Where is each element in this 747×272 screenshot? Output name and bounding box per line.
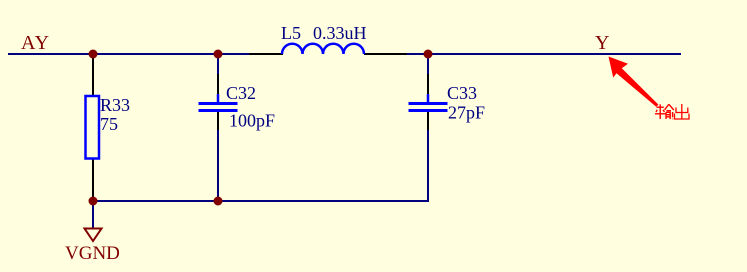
- resistor R33 label: [100, 95, 130, 115]
- ground VGND symbol: [85, 229, 102, 242]
- svg-text:75: 75: [100, 114, 118, 134]
- inductor L5 pin right: [364, 53, 407, 55]
- glyph 输: [657, 106, 664, 108]
- inductor L5 value 0.33uH: [313, 23, 367, 43]
- wire C33 top stub: [427, 54, 429, 75]
- junction node top C33: [424, 50, 433, 59]
- ground VGND label: [65, 243, 120, 264]
- net label AY: [21, 32, 50, 54]
- capacitor C32 label: [226, 83, 256, 103]
- resistor R33: [86, 96, 100, 159]
- capacitor C32: [199, 94, 238, 111]
- capacitor C33 pin bottom: [427, 112, 429, 130]
- capacitor C32 pin top: [217, 74, 219, 95]
- inductor L5: [282, 44, 364, 54]
- svg-text:27pF: 27pF: [448, 103, 485, 123]
- wire C33 bottom to rail: [427, 129, 429, 202]
- net label Y: [595, 32, 609, 54]
- wire C32 top stub: [217, 54, 219, 75]
- svg-text:R33: R33: [100, 95, 130, 115]
- svg-text:C33: C33: [447, 83, 477, 103]
- wire C32 bottom to rail: [217, 129, 219, 202]
- wire bottom rail: [93, 200, 429, 202]
- svg-text:L5: L5: [281, 23, 301, 43]
- wire top-right segment L5 to Y: [406, 53, 681, 55]
- capacitor C32 pin bottom: [217, 112, 219, 130]
- glyph 出: [681, 104, 683, 119]
- svg-text:VGND: VGND: [65, 243, 120, 264]
- capacitor C33: [409, 94, 448, 111]
- svg-text:AY: AY: [21, 32, 50, 54]
- svg-text:100pF: 100pF: [229, 111, 275, 131]
- svg-text:Y: Y: [595, 32, 609, 54]
- capacitor C33 pin top: [427, 74, 429, 95]
- junction node top C32: [214, 50, 223, 59]
- wire VGND stub: [92, 201, 94, 228]
- inductor L5 label: [281, 23, 301, 43]
- resistor R33 value 75: [100, 114, 118, 134]
- svg-text:C32: C32: [226, 83, 256, 103]
- inductor L5 pin left: [249, 53, 283, 55]
- resistor R1 pin top: [92, 54, 94, 96]
- svg-text:0.33uH: 0.33uH: [313, 23, 367, 43]
- capacitor C33 value 27pF: [448, 103, 485, 123]
- junction node bottom-left: [89, 197, 98, 206]
- junction node top-left: [89, 50, 98, 59]
- capacitor C32 value 100pF: [229, 111, 275, 131]
- capacitor C33 label: [447, 83, 477, 103]
- annotation arrow (output pointer): [609, 57, 659, 107]
- wire top-left segment AY to L5: [8, 53, 250, 55]
- annotation text 输出 (output): [655, 104, 674, 119]
- resistor R1 pin bottom: [92, 158, 94, 201]
- junction node bottom C32: [214, 197, 223, 206]
